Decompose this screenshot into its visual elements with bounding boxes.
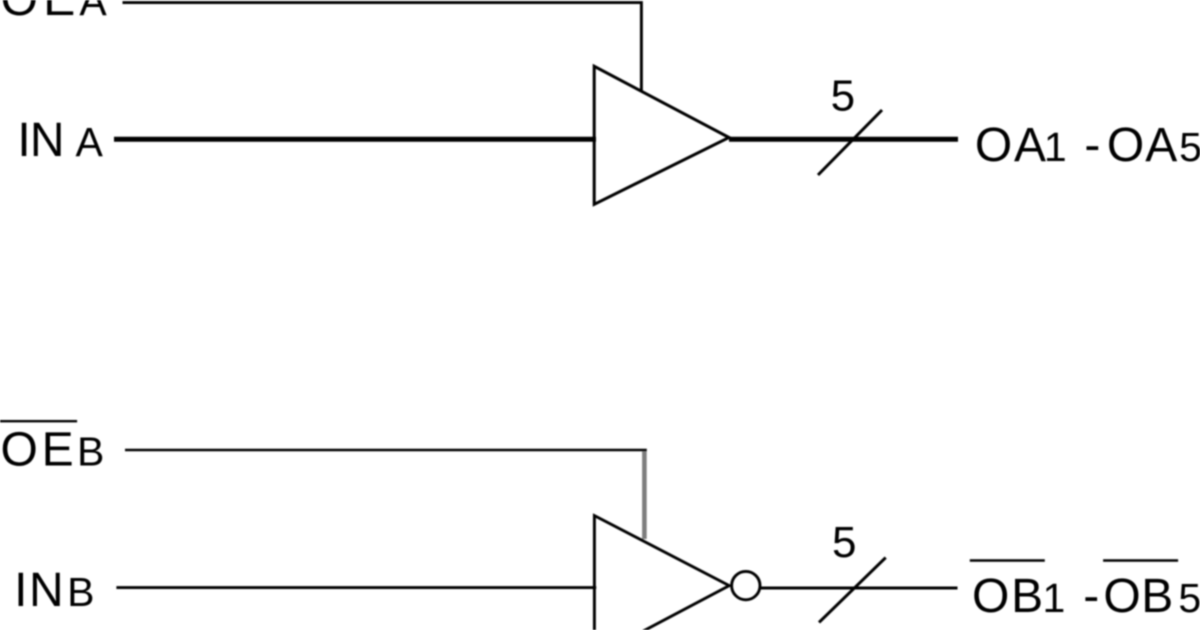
label OB1 - OB5 <box>972 570 1200 623</box>
overline over OB1 <box>970 559 1045 562</box>
wire OEA to buffer enable <box>123 3 642 92</box>
wire INA input <box>114 137 596 142</box>
svg-text:E: E <box>43 0 75 26</box>
wire OB output bus <box>761 587 958 590</box>
wire OEB vertical (gray) to inverter enable <box>642 451 647 539</box>
buffer U1 (non-inverting, channel A) <box>594 66 729 204</box>
svg-text:A: A <box>75 119 103 165</box>
wire OA output bus <box>729 137 958 142</box>
svg-text:A: A <box>1014 119 1046 172</box>
svg-text:O: O <box>1 424 38 477</box>
svg-text:B: B <box>1141 570 1173 623</box>
svg-text:O: O <box>1107 119 1144 172</box>
bus slash channel B <box>819 558 886 623</box>
svg-text:N: N <box>30 114 65 167</box>
label OEB <box>1 424 105 477</box>
overline over OEB label <box>0 420 77 422</box>
label OEA (clipped at top) <box>1 0 108 26</box>
svg-text:O: O <box>1 0 38 26</box>
label INB <box>14 564 94 617</box>
svg-text:N: N <box>29 564 64 617</box>
svg-text:A: A <box>79 0 107 24</box>
bus slash channel A <box>818 110 882 175</box>
svg-text:B: B <box>77 429 104 475</box>
label INA <box>17 114 103 167</box>
svg-text:A: A <box>1145 119 1177 172</box>
wire INB input <box>116 586 596 589</box>
svg-text:O: O <box>972 570 1009 623</box>
overline over OB5 <box>1103 559 1178 562</box>
inverter bubble <box>732 571 760 599</box>
svg-text:O: O <box>1103 570 1140 623</box>
svg-text:I: I <box>14 564 27 617</box>
svg-text:-: - <box>1083 570 1099 623</box>
svg-text:B: B <box>1011 570 1043 623</box>
svg-text:5: 5 <box>832 518 856 567</box>
wire OEB horizontal <box>125 449 647 452</box>
svg-text:B: B <box>67 569 94 615</box>
svg-text:I: I <box>17 114 30 167</box>
label OA1 - OA5 <box>975 119 1200 172</box>
svg-text:O: O <box>975 119 1012 172</box>
svg-text:5: 5 <box>1179 124 1200 170</box>
svg-text:E: E <box>42 424 74 477</box>
svg-text:5: 5 <box>1178 575 1200 621</box>
svg-text:-: - <box>1084 119 1100 172</box>
svg-text:5: 5 <box>831 72 855 121</box>
svg-text:1: 1 <box>1044 124 1067 170</box>
svg-text:1: 1 <box>1042 575 1065 621</box>
inverter U2 (channel B, clipped at bottom) <box>594 516 729 630</box>
